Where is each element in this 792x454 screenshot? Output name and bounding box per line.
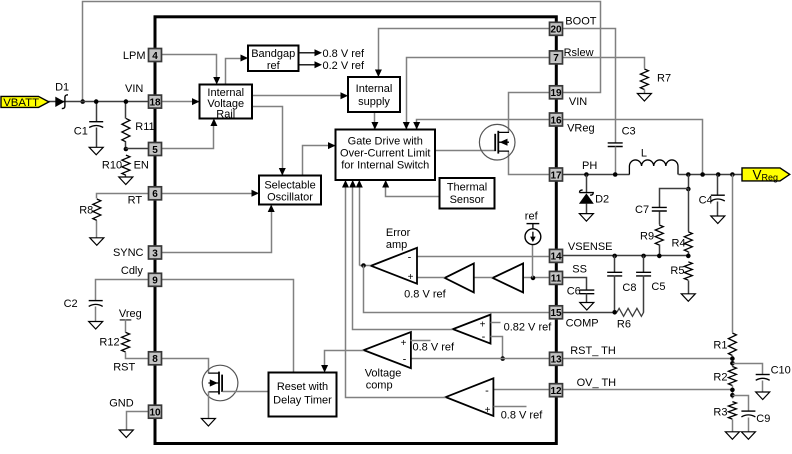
transistor Q2 reset — [202, 365, 238, 401]
wire VIN pin19 to MOSFET drain — [509, 93, 550, 133]
wire COMP external — [563, 312, 617, 314]
wire IVR to Internal supply — [253, 95, 347, 97]
svg-text:Rslew: Rslew — [564, 47, 594, 59]
buffer U2 — [445, 263, 474, 292]
ground R7 — [637, 94, 651, 102]
svg-text:-: - — [403, 353, 407, 365]
svg-text:+: + — [480, 319, 486, 330]
svg-text:L: L — [641, 148, 647, 160]
pin 18 left — [149, 95, 162, 108]
svg-text:0.8 V ref: 0.8 V ref — [413, 342, 456, 354]
svg-text:VSENSE: VSENSE — [568, 241, 613, 253]
block Selectable Oscillator — [259, 176, 321, 205]
pin 16 right — [550, 113, 563, 126]
comparator U4 0.82V — [453, 315, 491, 344]
resistor R4 — [688, 189, 690, 232]
svg-text:16: 16 — [550, 115, 562, 126]
svg-text:PH: PH — [582, 160, 597, 172]
wire OV ref stub — [494, 406, 527, 408]
svg-text:C2: C2 — [64, 298, 78, 310]
svg-text:comp: comp — [366, 380, 393, 392]
wire COMP to error amp — [364, 266, 550, 313]
svg-text:19: 19 — [550, 88, 562, 99]
svg-text:R12: R12 — [99, 337, 119, 349]
wire Cdly pin9 to Reset block — [162, 280, 294, 373]
wire MOSFET source to PH pin17 — [509, 152, 550, 175]
resistor R2 — [728, 367, 736, 386]
svg-text:0.82 V ref: 0.82 V ref — [504, 321, 553, 333]
svg-text:20: 20 — [550, 25, 562, 36]
svg-text:ref: ref — [525, 211, 539, 223]
node divider branch — [686, 187, 691, 192]
svg-text:+: + — [401, 338, 407, 349]
svg-text:0.2 V ref: 0.2 V ref — [323, 60, 366, 72]
svg-text:RST: RST — [113, 361, 135, 373]
pin 20 right — [550, 22, 563, 35]
pin 4 left — [149, 49, 162, 62]
resistor R1 — [732, 175, 734, 333]
svg-text:-: - — [408, 251, 412, 263]
pin 5 left — [149, 143, 162, 156]
svg-text:C10: C10 — [771, 365, 791, 377]
wire reset MOSFET gate — [223, 391, 269, 393]
wire BOOT external to C3 — [563, 29, 616, 143]
svg-text:C8: C8 — [622, 282, 636, 294]
svg-text:R4: R4 — [672, 238, 686, 250]
diode D2 — [586, 175, 588, 193]
svg-text:Cdly: Cdly — [121, 265, 144, 277]
svg-text:Thermal: Thermal — [447, 182, 487, 194]
wire IVR to Bandgap — [226, 59, 247, 85]
svg-text:for Internal Switch: for Internal Switch — [341, 159, 429, 171]
wire output to divider node — [688, 175, 690, 189]
svg-text:R5: R5 — [670, 265, 684, 277]
capacitor C9 — [741, 410, 755, 412]
wire VReg pin16 to Gate Drive — [417, 120, 550, 129]
capacitor C6 — [579, 290, 594, 294]
svg-text:0.8 V ref: 0.8 V ref — [323, 48, 366, 60]
ground C10 — [756, 392, 770, 400]
wire oscillator to Gate Drive — [303, 146, 335, 176]
pin 13 right — [550, 352, 563, 365]
node out C4 — [716, 172, 721, 177]
svg-text:17: 17 — [550, 170, 562, 181]
wire EN to pin 5 — [126, 148, 149, 150]
wire reset MOSFET source to ground — [208, 392, 210, 419]
wire vcomp out to reset block — [325, 351, 364, 371]
node C1 tap — [94, 99, 99, 104]
current source ref — [532, 245, 534, 278]
svg-text:3: 3 — [152, 248, 158, 259]
wire vcomp ref stub — [411, 340, 431, 342]
svg-text:R2: R2 — [713, 372, 727, 384]
svg-text:D1: D1 — [55, 82, 69, 94]
svg-text:7: 7 — [553, 53, 559, 64]
wire to C9 — [733, 396, 749, 412]
ground C9 — [741, 432, 755, 440]
pin 17 right — [550, 168, 563, 181]
pin 3 left — [149, 246, 162, 259]
resistor R8 — [93, 199, 101, 220]
node PH D2 — [584, 172, 589, 177]
wire Bandgap 0.8V output — [299, 52, 315, 54]
node VBATT — [80, 99, 85, 104]
svg-text:12: 12 — [550, 386, 562, 397]
pin 8 left — [149, 352, 162, 365]
node error amp output — [361, 263, 366, 268]
svg-text:RST_ TH: RST_ TH — [570, 345, 616, 357]
node C9 branch — [730, 393, 735, 398]
wire Thermal Sensor to Gate Drive — [386, 182, 440, 197]
svg-text:Sensor: Sensor — [450, 194, 485, 206]
wire 0.82 comp minus to RST_TH — [491, 337, 503, 359]
svg-text:R8: R8 — [79, 204, 93, 216]
svg-text:+: + — [485, 405, 491, 416]
Vreg supply tick — [120, 319, 132, 321]
svg-text:4: 4 — [152, 51, 158, 62]
svg-text:ref: ref — [267, 60, 281, 72]
svg-text:0.8 V ref: 0.8 V ref — [501, 409, 544, 421]
node VSENSE R9 — [657, 254, 662, 259]
svg-text:9: 9 — [152, 276, 158, 287]
wire EN pin5 to IVR bottom — [162, 121, 214, 149]
svg-text:OV_ TH: OV_ TH — [577, 377, 617, 389]
comparator U5 voltage comp — [364, 332, 411, 368]
svg-text:VIN: VIN — [569, 96, 587, 108]
wire VSENSE to error amp minus — [417, 256, 550, 258]
ground C4 — [711, 216, 725, 224]
svg-text:R1: R1 — [713, 340, 727, 352]
wire BOOT pin20 to Internal supply — [379, 29, 550, 76]
resistor R11 — [125, 102, 127, 119]
wire RST_TH internal — [411, 358, 550, 360]
node R11/R10/EN — [124, 147, 129, 152]
svg-text:C9: C9 — [756, 413, 770, 425]
wire branch to C7 — [660, 189, 689, 208]
svg-text:5: 5 — [152, 145, 158, 156]
pin 9 left — [149, 273, 162, 286]
pin 7 right — [550, 51, 563, 64]
svg-text:COMP: COMP — [566, 318, 599, 330]
inductor L — [629, 160, 678, 175]
svg-text:Rail: Rail — [216, 108, 235, 120]
wire RT pin6 to oscillator — [162, 193, 258, 195]
svg-text:C6: C6 — [567, 285, 581, 297]
svg-text:BOOT: BOOT — [565, 16, 596, 28]
wire SS to buffers — [524, 277, 550, 279]
resistor R5 — [684, 262, 692, 280]
svg-text:GND: GND — [109, 397, 134, 409]
svg-text:Reset with: Reset with — [277, 381, 328, 393]
wire SS external to C6 — [563, 278, 587, 291]
svg-text:RT: RT — [128, 195, 143, 207]
resistor R3 — [728, 402, 736, 420]
wire VBATT top rail to VIN pin 19 — [83, 2, 601, 102]
svg-text:R11: R11 — [135, 121, 154, 133]
VReg flag — [742, 168, 790, 181]
svg-text:Bandgap: Bandgap — [251, 48, 295, 60]
svg-text:C5: C5 — [651, 281, 665, 293]
svg-text:C7: C7 — [635, 204, 649, 216]
svg-text:6: 6 — [152, 189, 158, 200]
ground R10 — [119, 177, 133, 185]
wire Internal supply to Gate Drive — [374, 113, 376, 129]
svg-text:R10: R10 — [102, 160, 122, 172]
svg-text:Vreg: Vreg — [119, 308, 142, 320]
node out divider — [686, 172, 691, 177]
svg-text:C3: C3 — [622, 126, 636, 138]
svg-text:R6: R6 — [617, 319, 631, 331]
svg-text:supply: supply — [358, 96, 390, 108]
wire Gate Drive to MOSFET gate — [435, 150, 496, 152]
wire 0.82 ref stub — [491, 322, 501, 324]
svg-text:11: 11 — [551, 274, 562, 285]
wire GND pin10 — [127, 412, 149, 431]
svg-text:amp: amp — [386, 239, 407, 251]
node VSENSE C5 — [641, 254, 646, 259]
block Reset with Delay Timer — [269, 373, 337, 417]
block Thermal Sensor — [440, 178, 495, 209]
svg-text:+: + — [408, 272, 414, 283]
resistor R7 — [640, 69, 648, 90]
wire Cdly external to C2 — [96, 280, 149, 301]
wire VSENSE line — [563, 255, 689, 257]
node PH C3 — [613, 172, 618, 177]
svg-text:R3: R3 — [713, 407, 727, 419]
pin 14 right — [550, 249, 563, 262]
capacitor C7 — [652, 207, 667, 211]
wire RST_TH external — [563, 358, 733, 360]
wire VIN pin18 to IVR — [162, 101, 199, 103]
block Bandgap ref — [248, 46, 299, 72]
wire Rslew external to R7 — [563, 58, 645, 69]
block Internal supply — [348, 77, 400, 112]
pin 15 right — [550, 306, 563, 319]
op-amp U1 error amp — [371, 248, 417, 284]
node OV_TH R2 — [730, 388, 735, 393]
capacitor C5 — [643, 256, 645, 273]
svg-text:LPM: LPM — [123, 50, 146, 62]
ground D2 — [579, 214, 593, 222]
capacitor C1 — [96, 102, 98, 122]
node RST_TH tap — [500, 356, 505, 361]
capacitor C8 — [614, 256, 616, 273]
svg-text:Delay Timer: Delay Timer — [273, 394, 332, 406]
svg-text:Oscillator: Oscillator — [267, 192, 313, 204]
wire PH line — [563, 174, 630, 176]
wire 0.82 comp out to gate drive — [353, 182, 453, 330]
wire buffer2 to buffer1 — [474, 277, 493, 279]
resistor R10 — [122, 155, 130, 175]
wire error amp to gate drive — [359, 182, 361, 266]
svg-text:Error: Error — [386, 227, 411, 239]
buffer U3 — [493, 263, 523, 292]
node VSENSE C8 — [612, 254, 617, 259]
wire to C10 — [733, 364, 763, 375]
svg-text:SS: SS — [572, 263, 587, 275]
ground reset MOSFET — [201, 419, 215, 427]
svg-text:Gate Drive with: Gate Drive with — [348, 135, 423, 147]
node out VReg fb — [700, 172, 705, 177]
wire VBATT input line — [49, 101, 149, 103]
svg-text:SYNC: SYNC — [113, 247, 144, 259]
resistor R9 — [659, 212, 661, 225]
wire IVR to oscillator top — [253, 107, 283, 175]
ground R3 — [725, 432, 739, 440]
node R11 top — [124, 99, 129, 104]
ground C6 — [580, 303, 594, 311]
wire LPM to Internal Voltage Rail — [162, 55, 217, 83]
svg-text:R7: R7 — [657, 73, 671, 85]
block Internal Voltage Rail — [200, 85, 253, 119]
ground C1 — [89, 147, 103, 155]
node C10 branch — [730, 361, 735, 366]
node RST_TH R1 — [730, 356, 735, 361]
svg-text:Selectable: Selectable — [264, 180, 315, 192]
svg-text:C1: C1 — [74, 125, 88, 137]
svg-text:Internal: Internal — [356, 83, 393, 95]
wire RST pin8 to reset MOSFET drain — [162, 359, 209, 374]
node out R1 — [730, 172, 735, 177]
capacitor C3 — [608, 143, 623, 147]
pin 6 left — [149, 187, 162, 200]
node SS ref — [531, 276, 536, 281]
wire SYNC pin3 to oscillator bottom — [162, 207, 272, 253]
capacitor C2 — [89, 300, 103, 302]
svg-text:VIN: VIN — [125, 83, 143, 95]
pin 10 left — [149, 405, 162, 418]
pin 12 right — [550, 384, 563, 397]
IC boundary — [155, 17, 556, 444]
wire Bandgap 0.2V output — [299, 64, 315, 66]
wire RT external — [97, 194, 149, 199]
node VSENSE R4 — [686, 254, 691, 259]
svg-text:14: 14 — [550, 252, 562, 263]
diode D1 — [55, 97, 64, 107]
svg-text:C4: C4 — [699, 195, 713, 207]
svg-text:-: - — [482, 331, 486, 343]
svg-text:10: 10 — [149, 408, 161, 419]
svg-text:Over-Current Limit: Over-Current Limit — [340, 147, 430, 159]
svg-text:R9: R9 — [640, 231, 654, 243]
svg-text:8: 8 — [152, 354, 158, 365]
resistor R12 — [125, 320, 127, 333]
pin 11 right — [550, 271, 563, 284]
transistor Q1 internal switch — [479, 124, 515, 160]
ground C2 — [89, 322, 103, 330]
svg-text:VBATT: VBATT — [3, 97, 39, 109]
ground GND pin — [119, 430, 133, 438]
svg-text:15: 15 — [550, 308, 562, 319]
capacitor C4 — [717, 175, 719, 196]
wire OV comp out to gate drive — [346, 182, 446, 398]
resistor R6 — [617, 308, 644, 316]
wire buffer1 to error amp plus — [417, 277, 445, 279]
svg-text:13: 13 — [550, 355, 562, 366]
wire error amp output — [360, 265, 371, 267]
wire Rslew pin7 to Gate Drive — [407, 58, 550, 129]
wire VReg pin16 feedback — [563, 120, 703, 175]
block Gate Drive — [336, 130, 436, 181]
pin 19 right — [550, 86, 563, 99]
VBATT flag — [1, 96, 49, 107]
comparator U6 OV — [446, 378, 494, 416]
ground R8 — [90, 238, 104, 246]
svg-text:VReg: VReg — [567, 123, 595, 135]
svg-text:D2: D2 — [595, 193, 609, 205]
capacitor C10 — [756, 374, 770, 376]
wire OV_TH external — [563, 389, 733, 391]
svg-text:EN: EN — [134, 160, 149, 172]
svg-text:0.8 V ref: 0.8 V ref — [404, 288, 447, 300]
svg-text:Voltage: Voltage — [365, 367, 402, 379]
svg-text:18: 18 — [149, 97, 161, 108]
node COMP C8 — [612, 310, 617, 315]
wire OV_TH internal — [494, 389, 550, 391]
svg-text:-: - — [485, 385, 489, 397]
ground R5 — [681, 294, 695, 302]
